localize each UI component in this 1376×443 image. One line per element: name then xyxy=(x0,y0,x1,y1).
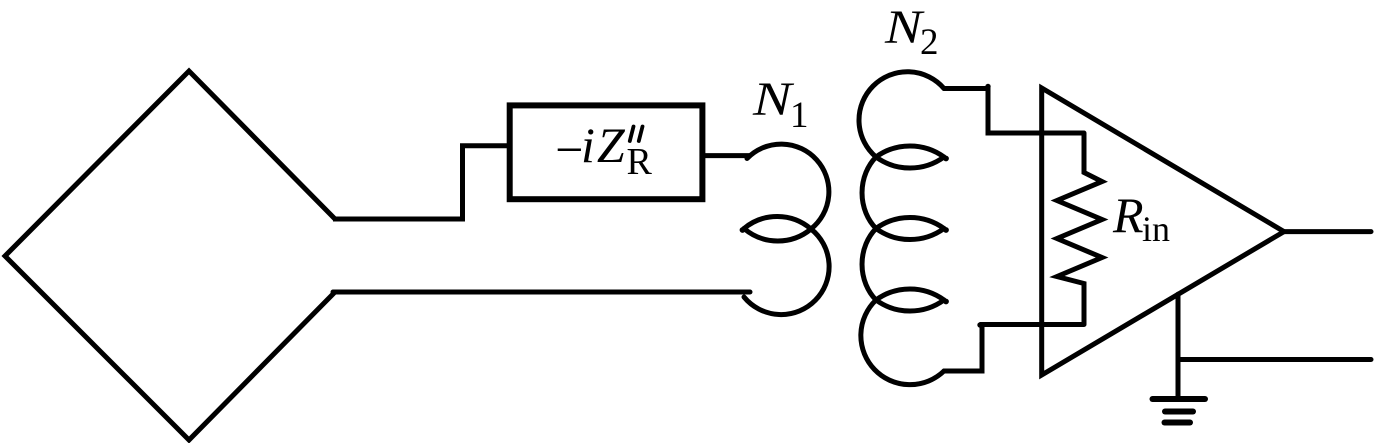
svg-text:N: N xyxy=(752,73,795,126)
wire: bottom right return xyxy=(1178,357,1371,362)
ground xyxy=(1153,399,1206,423)
double prime on Z xyxy=(630,127,643,142)
svg-text:iZ: iZ xyxy=(581,117,627,173)
wire: resistor bottom to N2 bottom xyxy=(944,325,1084,372)
wire: N2 top to amplifier input xyxy=(944,89,1084,134)
wire: ground branch from triangle bottom edge xyxy=(1176,294,1181,396)
svg-text:1: 1 xyxy=(790,95,809,136)
inductor N1 turn 1 xyxy=(744,144,829,241)
wire: box right to N1 top xyxy=(702,153,749,158)
label N1 xyxy=(752,73,809,136)
label N2 xyxy=(884,1,939,63)
label -iZ''R in box xyxy=(552,117,653,183)
svg-text:R: R xyxy=(1112,187,1144,243)
inductor N1 turn 2 xyxy=(744,217,829,315)
svg-text:in: in xyxy=(1142,209,1170,249)
svg-text:2: 2 xyxy=(920,22,939,63)
inductor N2 turn 2 xyxy=(862,146,944,240)
svg-text:R: R xyxy=(627,141,653,183)
resistor Rin (zigzag) with leads xyxy=(1057,133,1102,325)
op-amp U1 (triangle) xyxy=(1042,88,1284,375)
inductor N2 turn 3 xyxy=(862,217,944,311)
wire: amplifier output xyxy=(1284,229,1371,234)
impedance box -iZ''R xyxy=(510,105,703,199)
label Rin xyxy=(1112,187,1170,249)
junction nubs at coil cusps xyxy=(740,84,991,328)
antenna loop (diamond) xyxy=(5,71,335,440)
inductor N2 turn 1 xyxy=(859,72,944,168)
wire: diamond bottom output to N1 bottom xyxy=(333,290,750,295)
wire: diamond top output to vertical jog xyxy=(333,146,507,219)
inductor N2 turn 4 xyxy=(861,289,944,385)
